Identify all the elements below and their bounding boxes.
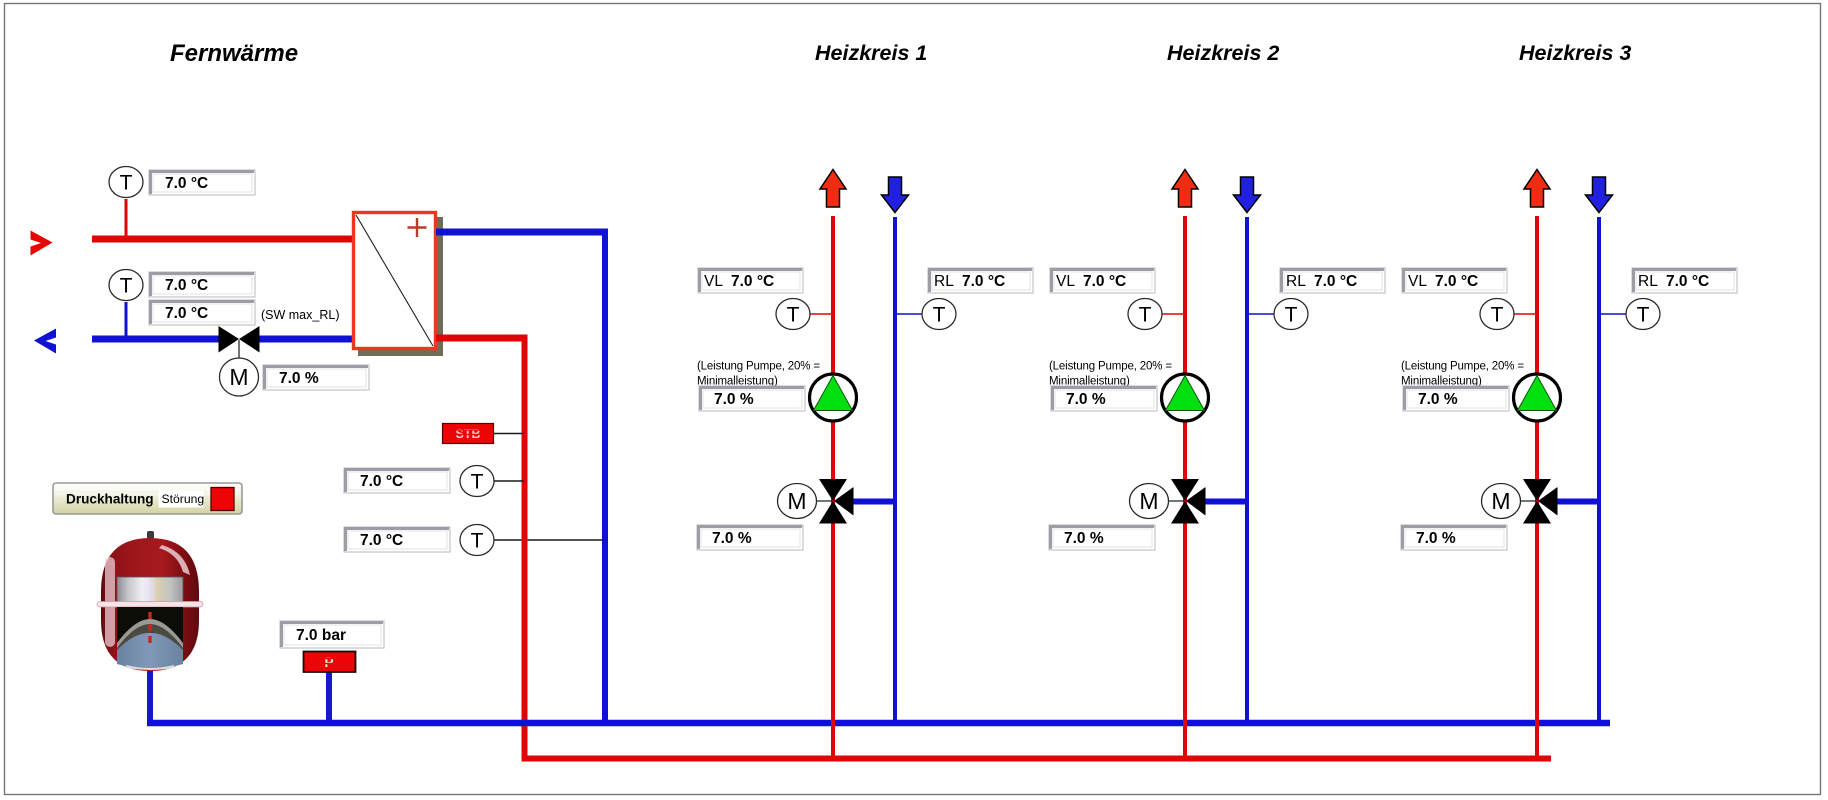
svg-text:T: T [471,530,484,553]
pipe secondary supply vertical [522,335,528,762]
pipe primary return segment A [92,336,220,343]
Druckhaltung panel [53,483,242,514]
pipe HK1 supply vertical [831,216,835,761]
wire pressure sensor to return pipe [326,671,332,726]
wire valve V1 to motor M1 [238,340,240,358]
svg-text:7.0 °C: 7.0 °C [360,473,403,490]
STB limit thermostat box [443,424,494,444]
svg-text:T: T [933,304,946,327]
value box HK2 valve position 7.0 % [1049,525,1155,550]
label HK3 Leistung Pumpe [1401,361,1524,388]
arrow HK1 supply up [820,170,846,208]
temperature sensor T4 [460,525,494,556]
svg-text:7.0 %: 7.0 % [1064,530,1104,547]
heat exchanger shadow [358,217,443,356]
temperature sensor HK2 T-VL [1128,299,1162,330]
arrow HK3 return down [1586,177,1613,213]
wire HK2 motor to valve [1168,500,1184,502]
svg-text:M: M [229,364,248,390]
pipe secondary supply horizontal [436,335,528,342]
value box HK3 pump speed 7.0 % [1403,386,1509,411]
svg-text:M: M [1139,488,1158,514]
pipe HK2 return vertical [1245,217,1249,726]
svg-text:T: T [471,471,484,494]
svg-text:(SW max_RL): (SW max_RL) [261,308,339,322]
motor actuator HK2 [1130,484,1169,519]
pump HK2 [1162,374,1209,421]
svg-text:Fernwärme: Fernwärme [170,40,298,67]
pipe HK1 return vertical [893,217,897,726]
temperature sensor HK3 T-VL [1480,299,1514,330]
pipe secondary return vertical [602,229,608,727]
pump HK3 [1514,374,1561,421]
svg-text:7.0 °C: 7.0 °C [1083,273,1126,290]
wire HK3 sensor T-RL to return pipe [1601,313,1626,315]
svg-text:7.0 °C: 7.0 °C [165,175,208,192]
supply inlet symbol > [31,231,53,256]
pipe primary supply (Fernwärme VL) [92,236,353,243]
arrow HK2 supply up [1172,170,1198,208]
wire vessel to return pipe [147,666,153,726]
wire HK1 motor to valve [816,500,832,502]
svg-text:VL: VL [1056,273,1075,290]
wire HK3 mixing valve to return pipe [1554,499,1601,505]
mixing valve HK2 [1171,479,1206,524]
svg-text:7.0 bar: 7.0 bar [296,627,346,644]
temperature sensor HK3 T-RL [1626,299,1660,330]
wire HK2 sensor T-RL to return pipe [1249,313,1274,315]
label HK1 Leistung Pumpe [697,361,820,388]
temperature sensor T3 [460,466,494,497]
wire HK2 sensor T-VL to supply pipe [1162,313,1184,315]
value box HK1 RL 7.0 °C [928,268,1033,293]
svg-text:T: T [1637,304,1650,327]
wire HK1 sensor T-RL to return pipe [897,313,922,315]
temperature sensor T2 [109,270,143,301]
value box HK3 RL 7.0 °C [1632,268,1737,293]
motor actuator M1 [220,358,259,396]
wire sensor T1 drop [125,199,128,236]
value box T1 7.0 °C [149,170,255,195]
svg-text:7.0 °C: 7.0 °C [1314,273,1357,290]
motor actuator HK1 [778,484,817,519]
wire HK3 sensor T-VL to supply pipe [1514,313,1536,315]
value box HK1 VL 7.0 °C [698,268,803,293]
svg-text:T: T [1491,304,1504,327]
return outlet symbol < [34,329,56,354]
svg-text:VL: VL [704,273,723,290]
value box T2 7.0 °C [149,272,255,297]
svg-text:RL: RL [1638,273,1658,290]
svg-text:T: T [120,172,133,195]
svg-text:Heizkreis 2: Heizkreis 2 [1167,41,1279,65]
svg-text:7.0 °C: 7.0 °C [165,277,208,294]
pipe bottom return main [147,720,1610,727]
temperature sensor T1 [109,167,143,198]
heat exchanger W1 [354,213,436,349]
pipe HK3 return vertical [1597,217,1601,726]
temperature sensor HK2 T-RL [1274,299,1308,330]
value box pressure 7.0 bar [280,621,384,648]
wire HK2 mixing valve to return pipe [1202,499,1249,505]
svg-text:T: T [120,275,133,298]
mixing valve HK1 [819,479,854,524]
value box M1 7.0 % [263,365,369,390]
value box T4 7.0 °C [344,527,450,552]
wire sensor T3 to supply pipe [494,480,524,482]
pipe primary return segment B [258,336,353,343]
svg-text:7.0 °C: 7.0 °C [360,532,403,549]
svg-text:7.0 %: 7.0 % [712,530,752,547]
value box HK3 valve position 7.0 % [1401,525,1507,550]
value box HK2 VL 7.0 °C [1050,268,1155,293]
svg-text:7.0 %: 7.0 % [1418,391,1458,408]
pipe secondary supply vertical overdraw [522,520,528,560]
svg-text:T: T [1139,304,1152,327]
svg-text:Druckhaltung: Druckhaltung [66,492,154,507]
label HK2 Leistung Pumpe [1049,361,1172,388]
wire sensor T4 to return pipe [494,539,604,541]
wire HK1 mixing valve to return pipe [850,499,897,505]
pipe secondary return top horizontal [436,229,608,236]
heat exchanger plus mark [408,218,427,237]
svg-text:RL: RL [934,273,954,290]
svg-text:Störung: Störung [162,492,205,506]
wire HK1 sensor T-VL to supply pipe [810,313,832,315]
svg-text:(Leistung Pumpe, 20% =: (Leistung Pumpe, 20% = [1049,361,1172,373]
pipe bottom supply main [522,756,1552,762]
svg-text:VL: VL [1408,273,1427,290]
svg-text:M: M [787,488,806,514]
svg-text:P: P [324,655,333,670]
arrow HK3 supply up [1524,170,1550,208]
svg-text:Heizkreis 3: Heizkreis 3 [1519,41,1631,65]
valve V1 (return control valve) [219,326,260,353]
svg-text:7.0 °C: 7.0 °C [731,273,774,290]
svg-text:7.0 %: 7.0 % [714,391,754,408]
value box HK1 pump speed 7.0 % [699,386,805,411]
wire HK3 motor to valve [1520,500,1536,502]
svg-text:Heizkreis 1: Heizkreis 1 [815,41,927,65]
value box HK2 RL 7.0 °C [1280,268,1385,293]
value box HK3 VL 7.0 °C [1402,268,1507,293]
svg-text:7.0 °C: 7.0 °C [1435,273,1478,290]
svg-text:RL: RL [1286,273,1306,290]
pipe HK3 supply vertical [1535,216,1539,761]
wire sensor T2 drop [125,302,128,336]
arrow HK1 return down [882,177,909,213]
value box T3 7.0 °C [344,468,450,493]
svg-text:7.0 %: 7.0 % [1066,391,1106,408]
temperature sensor HK1 T-VL [776,299,810,330]
value box SW max_RL 7.0 °C [149,300,255,325]
mixing valve HK3 [1523,479,1558,524]
arrow HK2 return down [1234,177,1261,213]
svg-text:M: M [1491,488,1510,514]
pipe HK2 supply vertical [1183,216,1187,761]
svg-text:(Leistung Pumpe, 20% =: (Leistung Pumpe, 20% = [1401,361,1524,373]
svg-text:7.0 °C: 7.0 °C [962,273,1005,290]
motor actuator HK3 [1482,484,1521,519]
pressure sensor P box [304,652,356,673]
svg-text:(Leistung Pumpe, 20% =: (Leistung Pumpe, 20% = [697,361,820,373]
value box HK1 valve position 7.0 % [697,525,803,550]
expansion vessel B1 [97,531,203,671]
wire STB to supply pipe [494,433,524,435]
svg-text:7.0 %: 7.0 % [279,370,319,387]
value box HK2 pump speed 7.0 % [1051,386,1157,411]
pump HK1 [810,374,857,421]
temperature sensor HK1 T-RL [922,299,956,330]
svg-text:T: T [787,304,800,327]
svg-text:7.0 %: 7.0 % [1416,530,1456,547]
svg-text:7.0 °C: 7.0 °C [165,305,208,322]
svg-text:7.0 °C: 7.0 °C [1666,273,1709,290]
svg-text:T: T [1285,304,1298,327]
